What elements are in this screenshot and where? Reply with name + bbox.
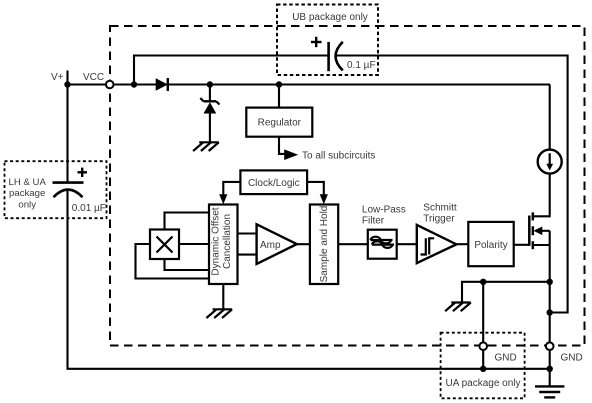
svg-text:Dynamic Offset: Dynamic Offset: [211, 207, 222, 275]
svg-text:Filter: Filter: [362, 216, 385, 227]
svg-text:V+: V+: [51, 72, 64, 83]
svg-text:Regulator: Regulator: [258, 118, 302, 129]
svg-text:only: only: [18, 199, 36, 210]
svg-text:0.1 µF: 0.1 µF: [347, 60, 376, 71]
svg-text:0.01 µF: 0.01 µF: [72, 203, 106, 214]
svg-text:package: package: [9, 188, 45, 199]
svg-text:LH & UA: LH & UA: [9, 177, 47, 188]
svg-text:Sample and Hold: Sample and Hold: [319, 206, 330, 283]
svg-text:VCC: VCC: [83, 72, 104, 83]
svg-text:Schmitt: Schmitt: [423, 203, 457, 214]
svg-text:UB package only: UB package only: [292, 12, 368, 23]
svg-text:Cancellation: Cancellation: [222, 214, 233, 269]
svg-text:GND: GND: [495, 353, 517, 364]
svg-text:Amp: Amp: [260, 240, 281, 251]
svg-text:UA package only: UA package only: [445, 378, 520, 389]
svg-text:GND: GND: [561, 353, 583, 364]
svg-text:Clock/Logic: Clock/Logic: [248, 178, 300, 189]
svg-text:Low-Pass: Low-Pass: [362, 205, 406, 216]
svg-text:Polarity: Polarity: [474, 240, 507, 251]
svg-text:Trigger: Trigger: [423, 214, 455, 225]
svg-text:To all subcircuits: To all subcircuits: [302, 151, 375, 162]
